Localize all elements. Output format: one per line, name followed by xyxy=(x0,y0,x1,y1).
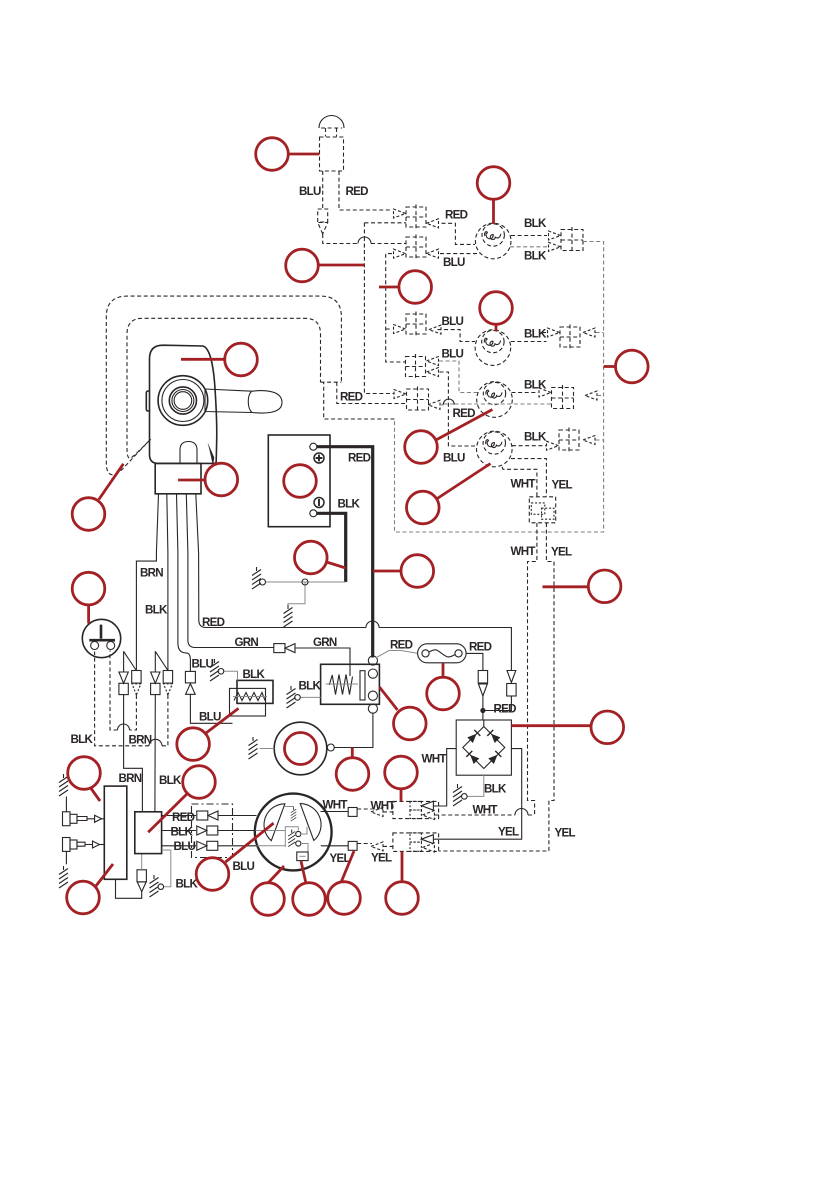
relay coil xyxy=(329,675,352,695)
hop of BLU wire over red bus xyxy=(358,237,371,243)
engine stop switch xyxy=(82,619,120,657)
callout ignition coil top xyxy=(68,757,101,801)
callout red bus xyxy=(286,249,365,282)
svg-text:BLK: BLK xyxy=(243,668,266,681)
cable wires from collar xyxy=(156,494,198,553)
svg-text:BLU: BLU xyxy=(299,185,321,198)
svg-text:YEL: YEL xyxy=(552,479,573,492)
svg-text:BLU: BLU xyxy=(233,860,255,873)
callout starter wire xyxy=(336,748,369,791)
svg-text:BLK: BLK xyxy=(524,328,547,341)
handle grip xyxy=(248,391,252,412)
connector C3 BLU xyxy=(406,312,426,337)
svg-text:BLU: BLU xyxy=(443,452,465,465)
connector C4 BLU xyxy=(406,354,426,379)
svg-text:WHT: WHT xyxy=(511,478,536,491)
right lighting coil xyxy=(300,804,321,841)
wire BLK lamp4 to connector xyxy=(512,445,546,447)
battery plus symbol xyxy=(314,453,324,463)
bullet BLK row xyxy=(197,826,207,835)
wire BRN jog xyxy=(136,553,156,671)
bullet RED row xyxy=(197,811,208,820)
WHT solid wire from rectifier arrives xyxy=(434,805,437,807)
wire relay to fuse xyxy=(376,651,418,658)
svg-text:BLU: BLU xyxy=(442,315,464,328)
hop RED over battery cable xyxy=(366,621,379,627)
lamp 2 xyxy=(475,330,511,366)
relay BLK ground xyxy=(300,696,320,698)
wire fuse to junction xyxy=(466,653,483,670)
WHT terminal square xyxy=(348,808,357,817)
CDI BLK wire xyxy=(162,830,196,832)
spark plug 2 xyxy=(63,838,105,865)
callout charge coil xyxy=(196,823,273,890)
svg-text:BRN: BRN xyxy=(140,567,163,580)
svg-text:RED: RED xyxy=(453,407,476,420)
flywheel magneto xyxy=(255,794,332,871)
svg-text:RED: RED xyxy=(202,616,225,629)
BLK wire to CDI xyxy=(154,695,156,812)
condenser xyxy=(297,852,308,861)
bus branch to lamp3 connector xyxy=(597,395,604,397)
points assembly xyxy=(285,827,308,852)
CDI BLK ground wire xyxy=(162,850,171,887)
callout lamp3 xyxy=(405,410,493,464)
YEL output wire xyxy=(321,845,348,847)
junction circle xyxy=(302,579,308,585)
YEL terminal square xyxy=(348,841,357,850)
svg-text:GRN: GRN xyxy=(235,636,259,649)
rectifier YEL output xyxy=(436,749,522,840)
BLK wire to grounds xyxy=(265,582,346,605)
terminal circle at ground xyxy=(260,579,266,585)
svg-text:WHT: WHT xyxy=(323,799,348,812)
connector lamp2 xyxy=(560,325,580,350)
callout lamp2 xyxy=(480,292,513,331)
CDI BLU wire xyxy=(162,845,196,847)
dashed wire pair2 BLK to kill switch xyxy=(95,652,168,746)
wire BLK lamp2 to connector xyxy=(511,333,547,342)
svg-text:WHT: WHT xyxy=(511,545,536,558)
svg-text:RED: RED xyxy=(469,641,492,654)
lamp 3 xyxy=(477,382,513,418)
svg-text:RED: RED xyxy=(346,185,369,198)
battery - terminal xyxy=(310,510,317,517)
callout remote control xyxy=(181,343,257,376)
hop over BLU drop xyxy=(443,399,454,405)
svg-text:BLK: BLK xyxy=(176,878,199,891)
callout dome light xyxy=(256,138,320,171)
svg-text:BLU: BLU xyxy=(442,348,464,361)
svg-text:BLK: BLK xyxy=(484,783,507,796)
hop kill dashed over BRN xyxy=(118,724,130,730)
wire B RED from sheath to C5 xyxy=(337,382,407,404)
YEL connector box xyxy=(393,833,439,852)
dome light neck xyxy=(321,128,342,137)
wire YEL from lamp4 xyxy=(511,459,546,497)
svg-text:WHT: WHT xyxy=(422,753,447,766)
callout blue bus xyxy=(379,271,432,304)
WHT output wire xyxy=(321,811,349,813)
magneto connector group box xyxy=(192,804,233,858)
WHT dashed to riser xyxy=(435,814,535,816)
svg-text:BLK: BLK xyxy=(159,774,182,787)
dome light body xyxy=(320,137,344,171)
svg-text:BLU: BLU xyxy=(192,658,214,671)
rectifier WHT output xyxy=(436,749,456,806)
battery minus symbol xyxy=(314,498,324,508)
blue feed bus vertical wire xyxy=(386,254,406,362)
sheath outer dashed outline xyxy=(106,296,341,475)
CDI unit box xyxy=(135,812,162,854)
connector pair lamp3 xyxy=(552,385,574,411)
callout fuse xyxy=(427,663,460,710)
spark plug 1 xyxy=(63,797,105,826)
callout CDI xyxy=(148,766,215,833)
svg-text:RED: RED xyxy=(348,452,371,465)
wire BLU dome to connector C2 xyxy=(323,234,406,244)
sheath inner dashed outline xyxy=(127,318,321,458)
wire RED from key switch xyxy=(199,553,512,670)
callout battery xyxy=(284,465,317,498)
wire BLU to buzzer xyxy=(190,694,232,723)
svg-text:BLK: BLK xyxy=(171,826,194,839)
callout lighting harness xyxy=(543,570,621,603)
relay plunger xyxy=(360,671,365,700)
bus branch to lamp2 connector xyxy=(596,332,604,334)
red feed bus vertical wire xyxy=(364,223,406,394)
BLU bullet connector xyxy=(185,671,195,683)
svg-text:YEL: YEL xyxy=(498,826,519,839)
wire BLU C4 to lamp4 xyxy=(440,372,477,446)
hop over bus on BLU xyxy=(363,237,365,250)
svg-text:BLU: BLU xyxy=(443,256,465,269)
svg-text:BLK: BLK xyxy=(299,680,322,693)
svg-text:BRN: BRN xyxy=(129,734,152,747)
bullet pair on fuse RED xyxy=(478,671,487,684)
svg-text:WHT: WHT xyxy=(371,800,396,813)
control wheel xyxy=(158,376,208,426)
sheath end cap xyxy=(321,381,342,383)
BRN wire to CDI xyxy=(124,695,143,812)
svg-text:BLK: BLK xyxy=(524,431,547,444)
BRN kink and bullet pair xyxy=(124,651,137,672)
ground battery second xyxy=(284,605,293,627)
wire GRN to relay xyxy=(295,648,350,676)
svg-text:BLU: BLU xyxy=(199,711,221,724)
battery box xyxy=(268,435,330,527)
wire BLK lamp1 lower to pair connector xyxy=(510,246,547,248)
lamp 1 xyxy=(475,223,511,259)
wire BLU C4 to lamp3 xyxy=(439,361,478,393)
wire BLU curve xyxy=(178,553,191,671)
bullet pair on key RED xyxy=(507,671,516,683)
wire BLK lamp3 to connector xyxy=(512,392,539,394)
connector pair lamp1 xyxy=(561,227,583,253)
starter relay box xyxy=(321,664,380,704)
svg-text:BLU: BLU xyxy=(174,840,196,853)
callout stop switch xyxy=(72,572,105,623)
remote control body xyxy=(150,345,217,463)
wire BLK xyxy=(167,553,169,671)
WHT connector box xyxy=(393,801,439,819)
connector C2 BLU xyxy=(406,235,426,260)
GRN bullet connector xyxy=(274,644,285,653)
magneto internal ground xyxy=(285,807,294,810)
rectifier diodes xyxy=(463,727,505,769)
buzzer BLK ground wire xyxy=(224,671,238,680)
YEL dashed link xyxy=(357,844,393,847)
cable boot arch xyxy=(180,442,197,464)
ground plug1 xyxy=(59,774,68,796)
junction dot xyxy=(480,708,485,713)
ground plug2 xyxy=(59,866,68,888)
svg-text:RED: RED xyxy=(390,639,413,652)
wire BLU C3 to lamp2 xyxy=(438,330,476,342)
callout rectifier xyxy=(511,711,623,744)
connector C5 RED xyxy=(407,387,429,413)
inline connector WHT/YEL xyxy=(529,497,555,523)
rectifier BLK ground xyxy=(467,775,484,796)
callout return bus xyxy=(604,350,649,383)
svg-text:RED: RED xyxy=(340,391,363,404)
svg-text:BLK: BLK xyxy=(338,498,361,511)
callout buzzer xyxy=(177,708,239,760)
wire WHT below connector xyxy=(528,523,537,815)
wire RED from dome light xyxy=(339,171,393,210)
svg-text:BRN: BRN xyxy=(119,772,142,785)
remote control side tab xyxy=(146,391,149,411)
CDI RED wire xyxy=(162,815,196,817)
callout collar xyxy=(178,463,238,496)
wire RED C1 to lamp1 xyxy=(442,223,476,244)
svg-text:GRN: GRN xyxy=(313,636,337,649)
svg-text:YEL: YEL xyxy=(330,852,351,865)
magneto internal wires xyxy=(256,831,286,846)
relay terminals xyxy=(368,656,377,665)
bullet BLU row xyxy=(197,841,207,850)
wire to junction xyxy=(483,696,512,720)
callout sheath xyxy=(72,464,123,531)
ignition coil xyxy=(104,786,127,879)
trigger wedge xyxy=(208,442,215,466)
warning buzzer xyxy=(237,680,273,703)
svg-text:BLK: BLK xyxy=(145,604,168,617)
wire BLU C2 to lamp1 xyxy=(440,253,480,255)
callout battery RED lead xyxy=(373,555,434,588)
left charge coil xyxy=(264,804,285,841)
callout relay xyxy=(379,687,426,740)
svg-text:RED: RED xyxy=(445,209,468,222)
YEL solid wire arrives xyxy=(434,838,437,840)
svg-text:RED: RED xyxy=(494,703,517,716)
BLK kink and bullet pair xyxy=(155,651,168,672)
rectifier box xyxy=(456,720,511,775)
callout condenser xyxy=(293,861,326,915)
CDI bottom bullet xyxy=(137,882,146,892)
fuse xyxy=(418,644,467,663)
wire BLK lamp1 to pair connector xyxy=(511,235,547,237)
bus branch to lamp4 connector xyxy=(596,439,604,441)
svg-text:YEL: YEL xyxy=(371,852,392,865)
bullet connector on dome BLU wire xyxy=(318,209,328,222)
connector lamp4 xyxy=(559,428,579,453)
dome light lens xyxy=(319,116,344,129)
control handle xyxy=(205,389,282,413)
thick RED battery cable xyxy=(317,447,373,658)
connector C1 RED xyxy=(406,205,426,230)
svg-text:YEL: YEL xyxy=(551,546,572,559)
cable collar xyxy=(155,463,201,493)
WHT dashed link xyxy=(357,809,393,812)
svg-text:BLK: BLK xyxy=(524,250,547,263)
callout magneto base xyxy=(252,866,285,915)
svg-text:BLK: BLK xyxy=(71,733,94,746)
return bus wire to right xyxy=(395,242,604,533)
coil bottom loop wire xyxy=(116,879,142,898)
callout ignition coil bottom xyxy=(67,864,113,914)
wire WHT from lamp4 xyxy=(502,467,537,497)
callout YEL connector xyxy=(386,852,419,915)
starter ground xyxy=(260,748,275,750)
lamp 4 xyxy=(477,431,513,467)
svg-text:BLK: BLK xyxy=(524,217,547,230)
callout lamp1 xyxy=(477,167,510,224)
rectifier RED input xyxy=(483,720,485,727)
callout lighting coil lead xyxy=(328,851,361,914)
callout battery BLK lead xyxy=(295,541,346,574)
callout WHT connector xyxy=(385,756,418,801)
callout lamp4 xyxy=(407,464,491,524)
svg-text:YEL: YEL xyxy=(555,827,576,840)
dashed wire pair2 to kill switch xyxy=(110,651,136,731)
ground battery main xyxy=(252,567,261,589)
battery + terminal xyxy=(310,443,317,450)
wire relay to starter xyxy=(334,713,373,747)
hop kill dashed over BLK wire xyxy=(149,739,162,745)
wire GRN curve xyxy=(188,553,274,648)
starter motor xyxy=(274,722,327,775)
wire RED C5 to lamp3 connector lower pin xyxy=(440,403,552,406)
wire BLU from dome light xyxy=(322,171,324,209)
thick BLK battery cable xyxy=(317,513,346,582)
hop WHT dashed over YEL solid xyxy=(515,809,528,815)
callout starter ring xyxy=(285,733,317,765)
svg-text:BLK: BLK xyxy=(524,379,547,392)
wire YEL below connector xyxy=(439,523,554,851)
